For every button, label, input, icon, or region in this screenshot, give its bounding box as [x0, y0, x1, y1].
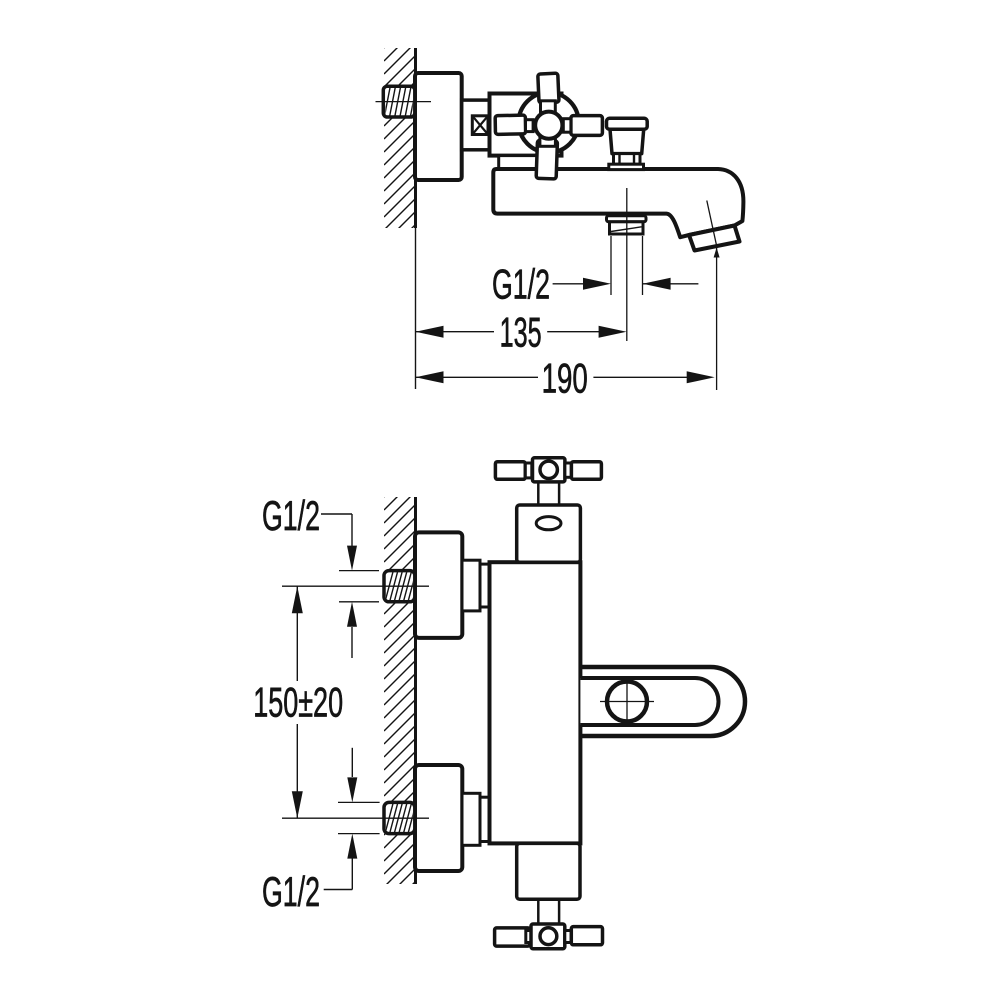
svg-text:150±20: 150±20	[253, 679, 343, 726]
svg-text:190: 190	[542, 355, 588, 402]
svg-text:135: 135	[500, 309, 542, 356]
svg-text:G1/2: G1/2	[262, 868, 320, 915]
svg-text:G1/2: G1/2	[492, 261, 550, 308]
svg-text:G1/2: G1/2	[262, 492, 320, 539]
